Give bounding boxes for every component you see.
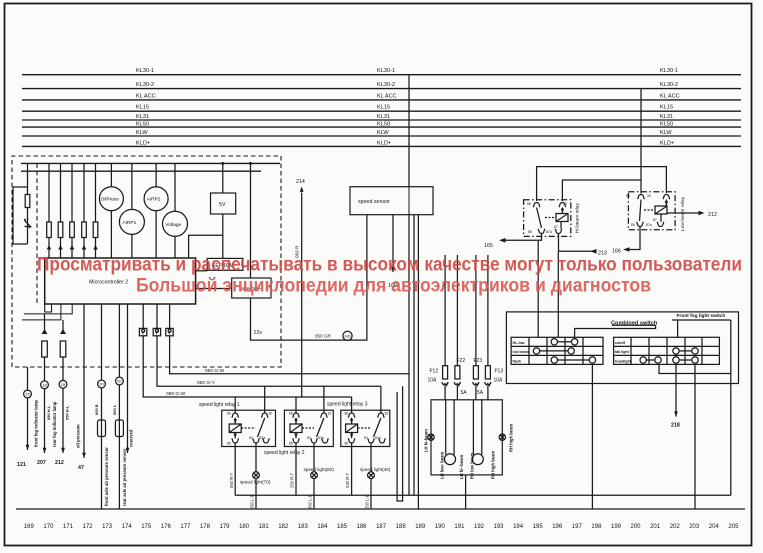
svg-text:87: 87 <box>249 436 253 440</box>
svg-text:Hi-beam relay: Hi-beam relay <box>575 203 581 233</box>
svg-text:180: 180 <box>239 524 250 530</box>
wire KL31 bus <box>22 119 741 121</box>
gauge AIRP2 <box>144 163 168 258</box>
svg-text:030 R-T: 030 R-T <box>345 472 350 488</box>
microcontroller U2 box <box>22 258 196 320</box>
svg-text:18: 18 <box>42 382 47 387</box>
svg-text:speed light(60): speed light(60) <box>304 467 335 472</box>
svg-text:LH hi-beam: LH hi-beam <box>424 429 429 452</box>
svg-text:212: 212 <box>55 460 64 466</box>
svg-text:85: 85 <box>289 442 293 446</box>
node bus labels middle <box>377 68 397 146</box>
svg-text:000 L: 000 L <box>112 404 117 415</box>
wire rear fog indicator <box>59 320 67 453</box>
lamp speed light 40 <box>368 472 375 509</box>
svg-text:170: 170 <box>43 524 54 530</box>
lamp speed light 60 <box>311 472 318 509</box>
svg-text:87a: 87a <box>260 436 266 440</box>
speed sensor box <box>350 187 433 215</box>
contact pair row3 <box>551 357 596 363</box>
svg-text:199: 199 <box>611 524 622 530</box>
svg-text:OilPress: OilPress <box>101 197 120 203</box>
svg-text:86: 86 <box>626 194 630 198</box>
svg-text:KL31: KL31 <box>136 114 149 120</box>
svg-text:oil pressure: oil pressure <box>76 424 81 448</box>
svg-text:207: 207 <box>37 460 46 466</box>
wire bus drop to sensor <box>408 75 410 187</box>
svg-text:KL15: KL15 <box>136 105 149 111</box>
svg-text:194: 194 <box>513 524 524 530</box>
wire 12V supply run <box>251 215 367 340</box>
front fog light switch label underline <box>672 319 731 321</box>
lamp LH dual filament <box>445 454 456 465</box>
svg-text:86: 86 <box>289 412 293 416</box>
svg-text:175: 175 <box>141 524 152 530</box>
svg-text:low beam: low beam <box>513 350 529 354</box>
svg-text:12v: 12v <box>254 330 263 336</box>
wire pin 121 run <box>24 367 32 450</box>
svg-text:87: 87 <box>307 436 311 440</box>
svg-text:tail light: tail light <box>615 350 630 354</box>
wire KL15 bus <box>22 110 741 112</box>
svg-text:5A: 5A <box>477 390 484 396</box>
wire relay drops to combined switch <box>537 241 539 337</box>
svg-text:KL15: KL15 <box>660 105 673 111</box>
partition dashed line <box>36 163 38 304</box>
svg-text:85: 85 <box>528 230 532 234</box>
svg-text:5V: 5V <box>219 202 226 208</box>
svg-text:Большой энциклопедии для автоэ: Большой энциклопедии для автоэлектриков … <box>136 275 651 297</box>
svg-text:front fog indicator lamp: front fog indicator lamp <box>34 400 39 447</box>
memory EEPROM box <box>207 258 243 270</box>
svg-text:KL31: KL31 <box>377 114 390 120</box>
svg-text:87a: 87a <box>646 223 652 227</box>
diode D a2 <box>58 245 64 252</box>
contact pair fog row3 left <box>640 357 661 363</box>
wire KL30-2 bus <box>22 88 741 90</box>
svg-text:A30: A30 <box>344 334 350 338</box>
svg-text:050 G-W: 050 G-W <box>205 368 225 374</box>
svg-text:KL30-2: KL30-2 <box>136 82 154 88</box>
connector K3 <box>166 304 409 374</box>
svg-text:rear axle air pressure sensor: rear axle air pressure sensor <box>122 448 127 506</box>
svg-text:KL30-1: KL30-1 <box>377 68 395 74</box>
svg-text:193: 193 <box>493 524 504 530</box>
svg-text:176: 176 <box>161 524 172 530</box>
svg-text:20: 20 <box>117 379 122 384</box>
wire internal supply bus <box>21 162 280 164</box>
svg-text:050 G-Y: 050 G-Y <box>197 380 216 386</box>
wire coordinate ruler line <box>16 508 745 510</box>
resistor R a1 <box>47 163 52 258</box>
node junction dots <box>221 162 224 165</box>
relay K hi-beam box <box>524 200 571 237</box>
svg-text:192: 192 <box>474 524 485 530</box>
resistor R a4 <box>82 163 87 258</box>
svg-text:86: 86 <box>527 202 531 206</box>
diode D a3 <box>69 245 75 252</box>
svg-text:202: 202 <box>670 524 681 530</box>
svg-text:47: 47 <box>78 465 84 471</box>
wire low-beam out 166 <box>623 227 640 252</box>
contact grid fog right <box>673 348 698 364</box>
svg-text:200: 200 <box>630 524 641 530</box>
gauge OilPress <box>99 163 123 258</box>
svg-text:172: 172 <box>82 524 93 530</box>
fuse F22 <box>454 255 460 400</box>
svg-text:KLD+: KLD+ <box>136 140 150 146</box>
svg-text:KL ACC: KL ACC <box>377 93 397 99</box>
relay speed light relay 1 <box>222 386 276 495</box>
wire KL30-1 bus <box>22 74 741 76</box>
svg-text:KL50: KL50 <box>136 122 149 128</box>
svg-text:KLW: KLW <box>136 130 148 136</box>
control unit dashed box <box>12 156 281 367</box>
wire mcu supply L <box>189 235 223 258</box>
diode D a1 <box>46 245 52 252</box>
svg-text:KL30-1: KL30-1 <box>660 68 678 74</box>
svg-text:15: 15 <box>25 392 30 397</box>
svg-text:reserved: reserved <box>129 429 134 447</box>
wire loop A feed <box>537 167 667 201</box>
svg-text:189: 189 <box>415 524 426 530</box>
svg-text:KL30-1: KL30-1 <box>136 68 154 74</box>
svg-text:30: 30 <box>328 412 332 416</box>
wire sensor ground runs <box>408 215 410 496</box>
wire loop B feed <box>562 180 641 201</box>
wire KL50 bus <box>22 126 741 128</box>
svg-text:050 L-B: 050 L-B <box>250 494 255 509</box>
svg-text:195: 195 <box>533 524 544 530</box>
wire bottom ground bus <box>235 494 731 496</box>
wire hairpin pair <box>397 386 403 501</box>
svg-text:183: 183 <box>298 524 309 530</box>
wire KLD+ bus <box>22 145 741 147</box>
connector K1 <box>139 304 351 397</box>
svg-text:10A: 10A <box>494 378 504 384</box>
relay speed light relay 3 <box>341 386 390 495</box>
svg-text:87a: 87a <box>318 436 324 440</box>
svg-text:KL15: KL15 <box>377 105 390 111</box>
svg-text:RH high beam: RH high beam <box>491 451 496 479</box>
svg-text:flash: flash <box>513 360 521 364</box>
svg-text:169: 169 <box>24 524 35 530</box>
svg-text:184: 184 <box>317 524 328 530</box>
svg-text:182: 182 <box>278 524 289 530</box>
svg-text:177: 177 <box>180 524 191 530</box>
svg-text:185: 185 <box>337 524 348 530</box>
wire internal supply bus lower <box>21 170 261 172</box>
resistor R a2 <box>58 163 63 258</box>
wire fog label drop <box>677 320 679 337</box>
wire label pointer to contact <box>575 325 656 337</box>
svg-text:speed light relay 2: speed light relay 2 <box>264 450 305 456</box>
resistor R a5 <box>93 163 98 258</box>
svg-text:KL30-2: KL30-2 <box>660 82 678 88</box>
svg-text:87a: 87a <box>375 436 381 440</box>
svg-text:85: 85 <box>227 442 231 446</box>
svg-text:10A: 10A <box>428 378 438 384</box>
svg-text:30: 30 <box>269 412 273 416</box>
svg-text:headlight: headlight <box>615 360 632 364</box>
svg-text:20: 20 <box>99 382 104 387</box>
svg-text:050 H-L: 050 H-L <box>65 405 70 420</box>
svg-text:AIRP1: AIRP1 <box>122 220 136 226</box>
wire mcu to eeprom <box>196 270 208 272</box>
svg-text:050 H-L: 050 H-L <box>46 405 51 420</box>
svg-text:050 L-B: 050 L-B <box>365 494 370 509</box>
svg-text:KLW: KLW <box>660 130 672 136</box>
wire KL ACC bus <box>22 99 741 101</box>
svg-text:212: 212 <box>708 212 717 218</box>
svg-text:speed light relay 3: speed light relay 3 <box>327 402 368 408</box>
svg-text:204: 204 <box>709 524 720 530</box>
svg-text:171: 171 <box>63 524 74 530</box>
svg-text:201: 201 <box>650 524 661 530</box>
svg-text:87: 87 <box>364 436 368 440</box>
svg-text:speed light(40): speed light(40) <box>360 467 391 472</box>
svg-text:050 G-W: 050 G-W <box>166 391 186 397</box>
svg-text:KL31: KL31 <box>660 114 673 120</box>
lamp RH high beam small <box>499 434 505 440</box>
svg-text:Просматривать и распечатывать: Просматривать и распечатывать в высоком … <box>37 255 742 276</box>
svg-text:KL30-2: KL30-2 <box>377 82 395 88</box>
svg-text:186: 186 <box>356 524 367 530</box>
svg-text:30: 30 <box>647 194 651 198</box>
svg-text:197: 197 <box>572 524 583 530</box>
lamp LH hi-beam small <box>428 434 434 440</box>
svg-text:AIRP2: AIRP2 <box>147 197 161 203</box>
svg-text:KLD+: KLD+ <box>377 140 391 146</box>
svg-text:F22: F22 <box>457 358 466 364</box>
svg-text:30: 30 <box>563 202 567 206</box>
diode D a5 <box>93 245 99 252</box>
svg-text:173: 173 <box>102 524 113 530</box>
svg-text:LH hi--beam: LH hi--beam <box>459 455 464 479</box>
regulator 5V box <box>211 163 236 258</box>
svg-text:187: 187 <box>376 524 387 530</box>
svg-text:Front fog light switch: Front fog light switch <box>677 313 726 319</box>
svg-text:203: 203 <box>689 524 700 530</box>
svg-text:Combined switch: Combined switch <box>611 321 658 327</box>
svg-text:214: 214 <box>296 179 305 185</box>
svg-text:Microcontroller 2: Microcontroller 2 <box>89 280 128 286</box>
relay speed light relay 2 <box>284 386 333 495</box>
svg-text:85: 85 <box>631 223 635 227</box>
svg-text:179: 179 <box>219 524 230 530</box>
wire low-beam out 212 <box>667 211 705 215</box>
wire lamp feeds inside box <box>445 400 447 455</box>
svg-text:181: 181 <box>259 524 270 530</box>
contact pair row2 <box>533 348 574 354</box>
contact pair row1 <box>551 339 578 345</box>
svg-text:18: 18 <box>61 382 66 387</box>
gauge Voltage <box>163 163 188 258</box>
svg-text:speed sensor: speed sensor <box>358 199 390 205</box>
wire headlamp ground <box>465 475 467 509</box>
svg-text:KL50: KL50 <box>377 122 390 128</box>
wire 214 reference <box>300 187 304 398</box>
resistor R in1 (left sense) <box>13 163 30 244</box>
resistor R a3 <box>70 163 75 258</box>
wire 218 drop <box>674 364 678 416</box>
svg-text:250 R-T: 250 R-T <box>290 472 295 488</box>
wire KLW bus <box>22 135 741 137</box>
fuse F13 <box>485 255 491 400</box>
svg-text:191: 191 <box>454 524 465 530</box>
svg-text:178: 178 <box>200 524 211 530</box>
svg-text:165: 165 <box>484 243 493 249</box>
wire fog sub-box bottom <box>659 364 731 373</box>
node bus labels right <box>660 68 680 146</box>
svg-text:cutoff: cutoff <box>615 341 626 345</box>
svg-text:RH low beam: RH low beam <box>470 452 475 479</box>
svg-text:5A: 5A <box>461 390 468 396</box>
svg-text:850 L-B: 850 L-B <box>308 494 313 509</box>
svg-text:86: 86 <box>345 412 349 416</box>
svg-text:121: 121 <box>17 462 26 468</box>
svg-text:Low-beam relay: Low-beam relay <box>680 196 686 231</box>
svg-text:30: 30 <box>385 412 389 416</box>
svg-text:000 B: 000 B <box>94 404 99 415</box>
wire table out to ruler <box>591 364 593 509</box>
svg-text:050 R-T: 050 R-T <box>229 472 234 488</box>
svg-text:Hi--low: Hi--low <box>513 341 525 345</box>
wire box right edge down to bus <box>730 320 732 495</box>
combined switch table <box>511 337 603 364</box>
svg-text:F12: F12 <box>430 369 439 375</box>
wire front fog indicator <box>41 314 49 453</box>
combined switch outer box <box>506 312 738 384</box>
svg-text:F13: F13 <box>495 369 504 375</box>
wire mcu to interface <box>196 288 232 290</box>
svg-text:218: 218 <box>671 423 680 429</box>
interface box <box>232 163 271 298</box>
fog switch table <box>614 337 720 364</box>
wire fog out right to ruler <box>694 364 696 509</box>
svg-text:87a: 87a <box>546 230 552 234</box>
svg-text:KLW: KLW <box>377 130 389 136</box>
svg-text:F23: F23 <box>474 358 483 364</box>
wire reserved <box>126 304 130 453</box>
svg-text:196: 196 <box>552 524 563 530</box>
diode D a4 <box>81 245 87 252</box>
lamp speed light 70 <box>253 472 260 509</box>
svg-text:KL ACC: KL ACC <box>136 93 156 99</box>
svg-text:KL50: KL50 <box>660 122 673 128</box>
relay K low-beam box <box>628 192 675 230</box>
svg-text:85: 85 <box>345 442 349 446</box>
svg-text:87: 87 <box>653 218 657 222</box>
svg-text:87: 87 <box>554 225 558 229</box>
gauge AIRP1 <box>119 163 144 258</box>
connector A30 <box>343 331 352 340</box>
svg-text:RH high beam: RH high beam <box>509 424 514 452</box>
headlamp unit box <box>431 400 502 475</box>
node bus labels left <box>136 68 156 146</box>
fuse F23 <box>473 255 479 400</box>
svg-text:050 GR: 050 GR <box>315 334 332 339</box>
svg-text:174: 174 <box>122 524 133 530</box>
svg-text:Voltage: Voltage <box>165 222 181 228</box>
wire hi-beam out 213 <box>559 234 597 254</box>
fuse F12 <box>442 255 448 400</box>
wire rear axle sensor <box>115 304 123 509</box>
wire KL30-2 drop to low-beam relay <box>640 89 642 194</box>
svg-text:speed light relay 1: speed light relay 1 <box>199 402 240 408</box>
diode D zener in1 <box>24 217 31 228</box>
lamp RH dual filament <box>472 454 483 465</box>
svg-text:188: 188 <box>396 524 407 530</box>
svg-text:205: 205 <box>728 524 739 530</box>
svg-text:KL ACC: KL ACC <box>660 93 680 99</box>
svg-text:86: 86 <box>227 412 231 416</box>
svg-text:front axle air pressure sensor: front axle air pressure sensor <box>104 447 109 506</box>
svg-text:speed light(70): speed light(70) <box>240 480 271 485</box>
connector K2 <box>153 304 381 386</box>
svg-text:198: 198 <box>591 524 602 530</box>
wire front axle sensor <box>98 304 106 509</box>
wire sensor out 160 <box>391 215 395 272</box>
wire oil pressure <box>82 304 86 458</box>
wire hi-beam out 165 <box>499 234 542 243</box>
svg-text:rear fog indicator lamp: rear fog indicator lamp <box>52 401 57 447</box>
svg-text:190: 190 <box>435 524 446 530</box>
svg-text:LH low- beam: LH low- beam <box>440 452 445 479</box>
svg-text:KLD+: KLD+ <box>660 140 674 146</box>
